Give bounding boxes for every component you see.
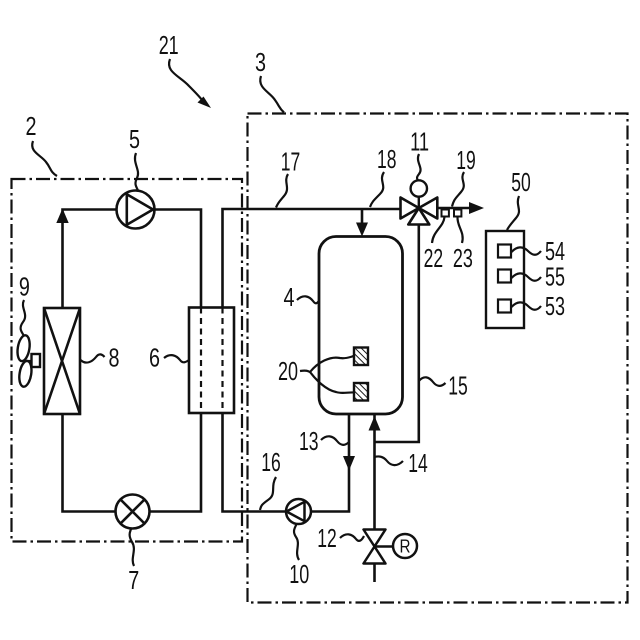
svg-text:5: 5	[129, 126, 140, 154]
controller 50 (box)	[486, 231, 524, 328]
label 54 with leader	[512, 238, 566, 266]
wire: valve 11 outlet right with arrow	[438, 207, 470, 210]
fan 9 (propeller + motor square)	[16, 334, 40, 387]
svg-text:19: 19	[456, 147, 476, 175]
svg-text:18: 18	[377, 146, 397, 174]
svg-text:15: 15	[448, 373, 468, 401]
sensor input 55 (square)	[498, 270, 511, 283]
label 5 with leader	[129, 126, 140, 190]
wire: below HX6 left pipe to expansion device 7 and up left	[63, 413, 202, 512]
label 18 with leader	[370, 146, 396, 207]
label 6 with leader	[149, 345, 189, 373]
svg-text:12: 12	[317, 525, 337, 553]
wire below valve 12	[373, 564, 376, 583]
expansion device 7 (circle with X)	[116, 495, 150, 529]
wire 18 branch: down into tank with arrow	[361, 209, 364, 224]
svg-text:2: 2	[26, 113, 37, 141]
label 2 with leader	[26, 113, 58, 176]
enclosure 3 (dash-dot box, right unit)	[248, 114, 628, 603]
pump 5	[117, 191, 155, 229]
svg-text:3: 3	[255, 49, 266, 77]
label 8 with leader	[81, 345, 120, 373]
svg-text:11: 11	[410, 129, 429, 157]
sensor input 54 (square)	[498, 245, 511, 258]
label 4 with leader	[284, 284, 320, 312]
heat exchanger 6 (rect with two dashed pipes)	[189, 308, 234, 414]
svg-text:13: 13	[299, 428, 319, 456]
wire 15: valve bottom port down and left to riser 14	[375, 225, 419, 443]
label 50 with leader	[507, 169, 531, 230]
heater 20b (hatched square)	[354, 383, 368, 401]
svg-text:7: 7	[128, 567, 139, 595]
wire 16: pump 10 to HX6 right pipe	[223, 413, 287, 512]
svg-text:16: 16	[261, 449, 281, 477]
svg-text:23: 23	[453, 245, 473, 273]
sensor 23 (small square on outlet line)	[454, 210, 461, 217]
svg-text:9: 9	[19, 274, 30, 302]
svg-text:4: 4	[284, 284, 295, 312]
svg-text:14: 14	[408, 450, 428, 478]
label 10 with leader	[289, 524, 309, 589]
svg-text:53: 53	[545, 293, 565, 321]
svg-text:55: 55	[545, 264, 565, 292]
label 11 with leader	[410, 129, 429, 181]
flow arrow up into tank	[369, 416, 381, 431]
sensor input 53 (square)	[498, 300, 511, 313]
label 20 with forked leaders	[278, 356, 354, 393]
svg-text:R: R	[400, 537, 411, 557]
tank 4 (rounded rect)	[319, 237, 403, 415]
label 9 with leader	[19, 274, 30, 336]
label 55 with leader	[512, 264, 566, 292]
label 16 with leader	[260, 449, 281, 510]
valve 11 actuator (circle on stem)	[411, 180, 427, 208]
label 22 with leader	[424, 217, 445, 273]
label 14 with leader	[375, 450, 428, 478]
label 17 with leader	[276, 149, 300, 208]
svg-text:6: 6	[149, 345, 160, 373]
enclosure 2 (dash-dot box, left unit)	[12, 179, 243, 542]
svg-text:8: 8	[109, 345, 120, 373]
label 7 with leader	[128, 529, 139, 595]
pump 10	[286, 499, 311, 524]
heater 20a (hatched square)	[354, 348, 368, 366]
svg-text:21: 21	[159, 32, 179, 60]
svg-text:10: 10	[289, 561, 309, 589]
wire 17: HX6 right pipe up and across to valve 11	[223, 209, 402, 308]
flow arrow down on wire 13	[343, 456, 355, 471]
label 12 with leader	[317, 525, 364, 553]
label 23 with leader	[453, 217, 473, 273]
actuator R of valve 12	[375, 534, 418, 558]
flow arrow up on left riser	[56, 209, 68, 224]
valve 12 (two triangles)	[364, 530, 386, 564]
heat exchanger 8 (rect with X)	[44, 308, 80, 414]
label 3 with leader	[255, 49, 284, 112]
label 19 with leader	[452, 147, 476, 207]
svg-text:17: 17	[281, 149, 301, 177]
sensor 22 (small square on outlet line)	[442, 210, 449, 217]
wire: pump 5 outlet to HX6 left pipe	[155, 210, 202, 308]
three-way valve 11	[401, 198, 438, 225]
label 15 with leader	[419, 373, 468, 401]
label 21 with arrow leader	[159, 32, 211, 108]
wire 13: tank bottom left pipe down to pump line	[311, 414, 349, 512]
svg-text:22: 22	[424, 245, 444, 273]
wire 14: riser into tank bottom, down to valve 12	[373, 414, 376, 530]
label 13 with leader	[299, 428, 349, 456]
svg-text:54: 54	[545, 238, 565, 266]
wire: left loop riser (x=62.5) with HX8 in line	[63, 210, 117, 309]
svg-text:50: 50	[511, 169, 531, 197]
label 53 with leader	[512, 293, 566, 321]
svg-text:20: 20	[278, 358, 298, 386]
